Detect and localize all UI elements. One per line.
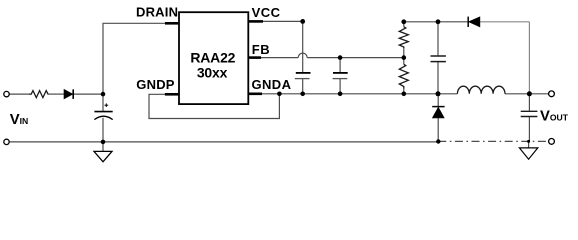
svg-text:FB: FB [252, 42, 270, 57]
svg-text:GNDP: GNDP [136, 77, 174, 92]
svg-text:RAA22: RAA22 [190, 49, 235, 65]
svg-text:DRAIN: DRAIN [136, 4, 178, 19]
svg-text:30xx: 30xx [197, 64, 228, 80]
svg-text:VCC: VCC [252, 5, 281, 20]
svg-text:GNDA: GNDA [252, 77, 292, 92]
